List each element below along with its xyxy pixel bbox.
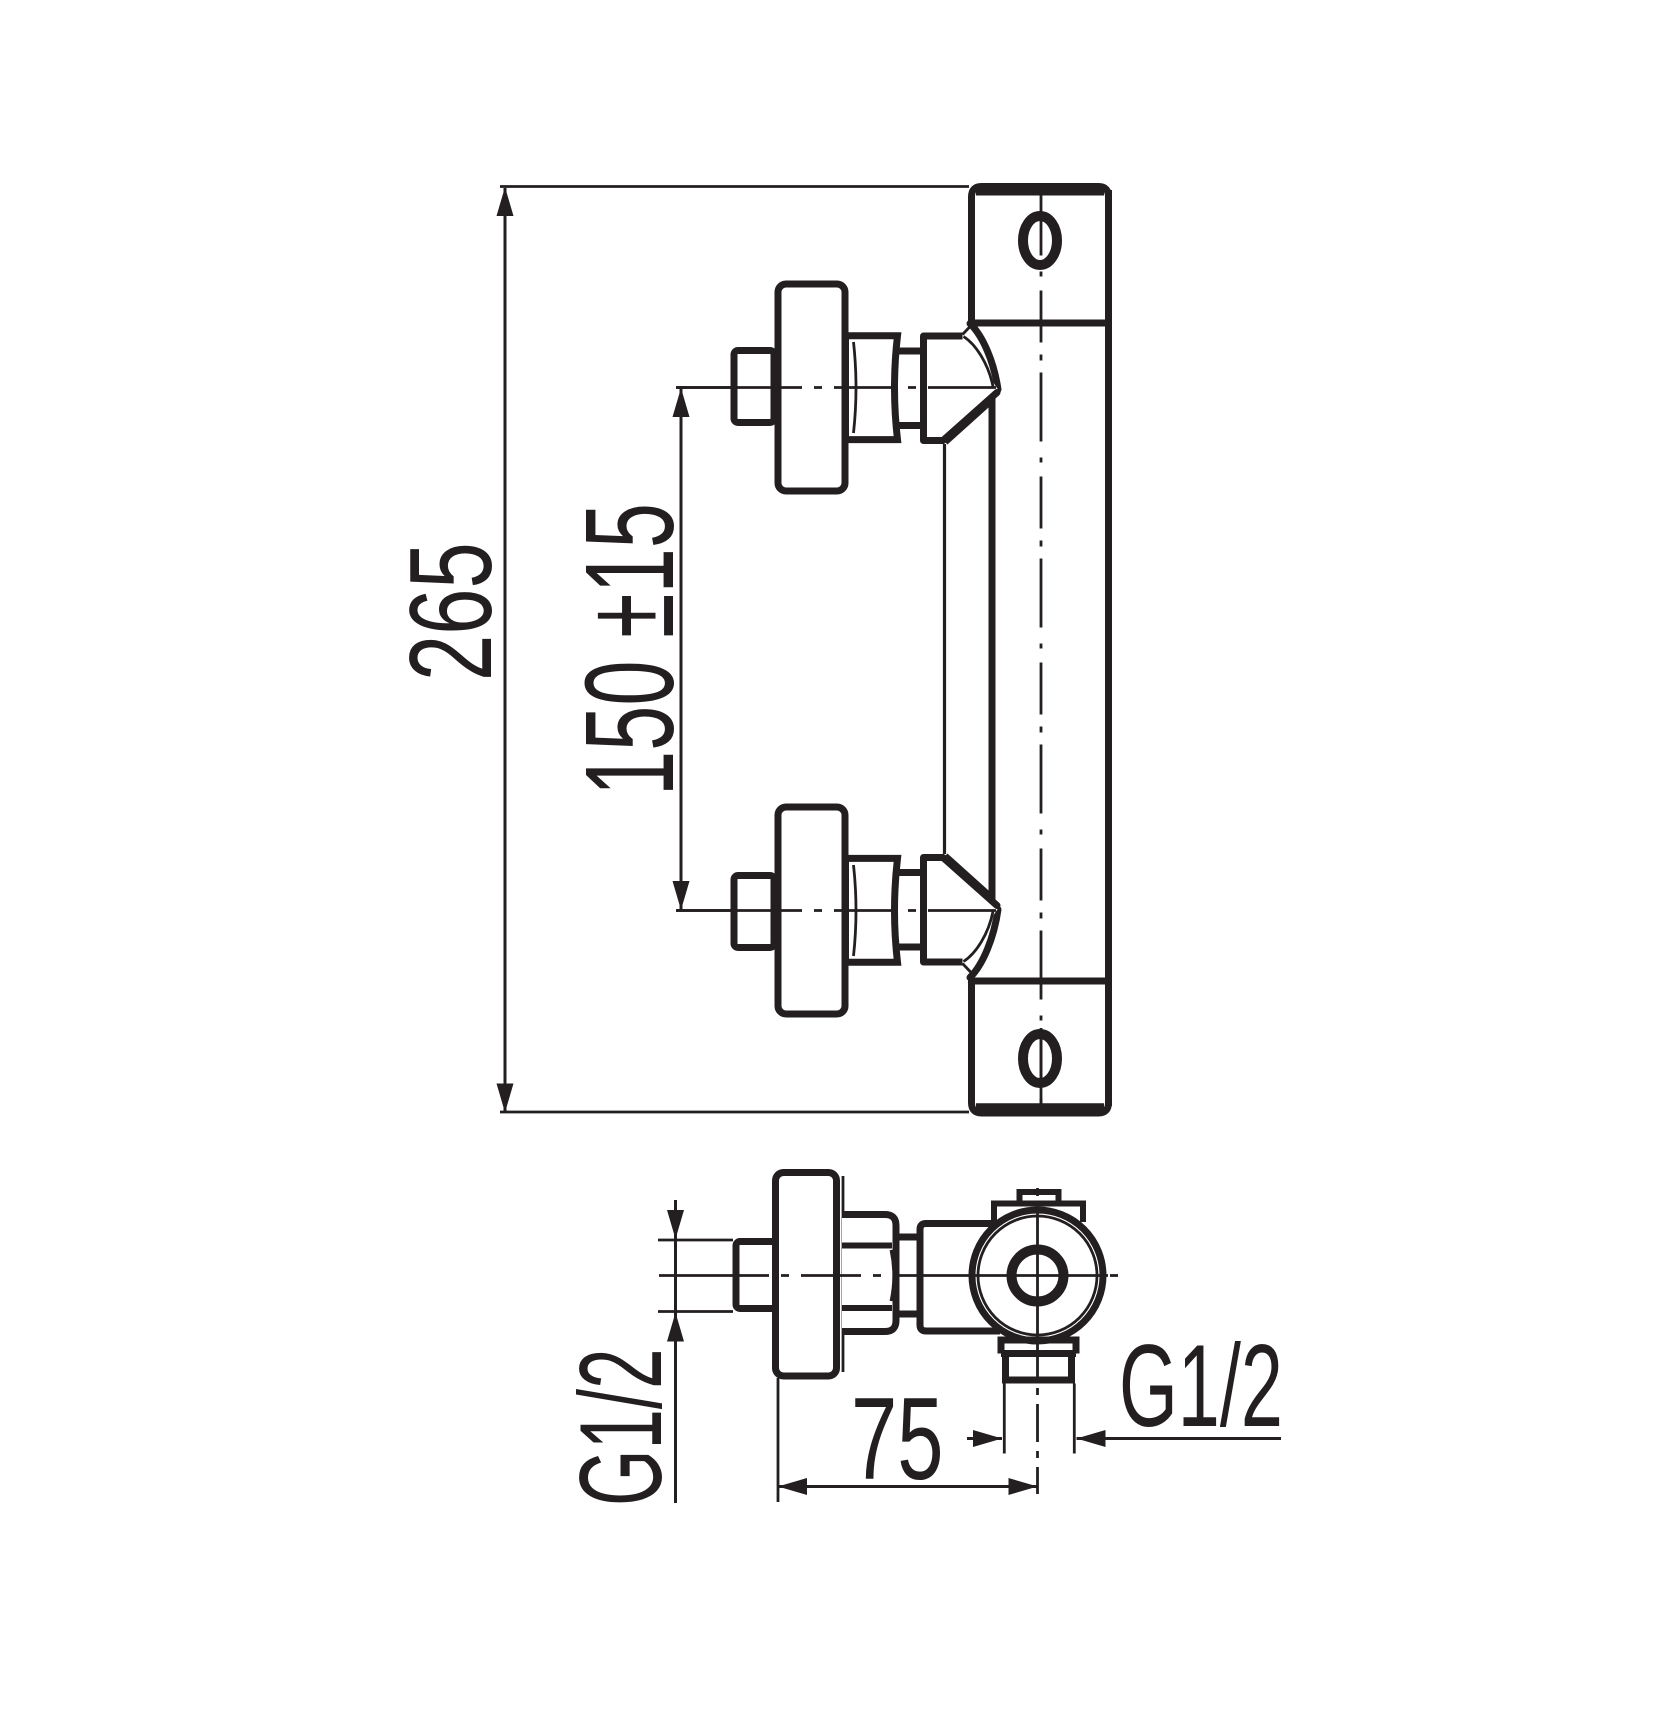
svg-text:150 ±15: 150 ±15 bbox=[560, 503, 700, 796]
svg-text:G1/2: G1/2 bbox=[1119, 1320, 1283, 1451]
svg-text:G1/2: G1/2 bbox=[555, 1348, 686, 1506]
svg-text:265: 265 bbox=[385, 542, 516, 681]
svg-text:75: 75 bbox=[851, 1373, 944, 1504]
